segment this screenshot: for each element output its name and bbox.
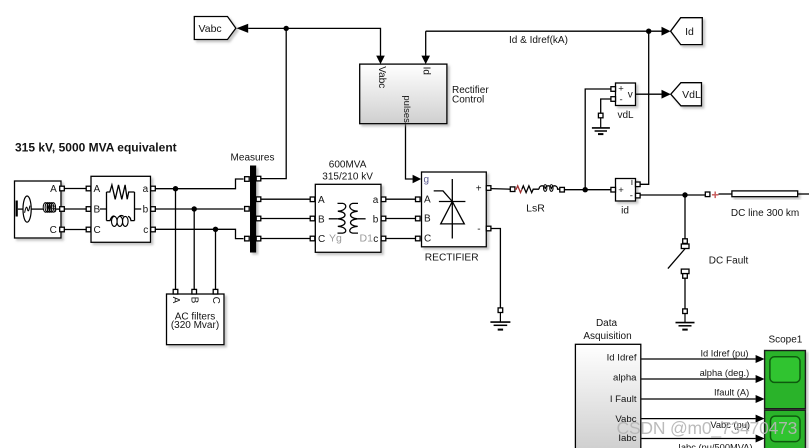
goto tag Vabc [194, 17, 236, 40]
node phase A junction [173, 186, 178, 191]
wire alpha to scope [642, 378, 756, 380]
svg-text:Control: Control [452, 95, 484, 106]
ground 2 [676, 314, 695, 330]
Id signal wire from control input down [425, 31, 427, 56]
Measures bus bar subsystem [231, 153, 275, 253]
svg-text:VdL: VdL [682, 89, 701, 101]
wire rectifier - to ground 3 [491, 229, 501, 308]
svg-text:A: A [94, 184, 101, 195]
svg-text:Id: Id [685, 26, 694, 38]
ground 3 [490, 313, 510, 330]
arrowhead into VdL tag [662, 90, 671, 99]
rectifier block [416, 172, 491, 264]
DC line 300 km block [719, 191, 809, 219]
Rectifier Control block [360, 64, 490, 124]
wire LsR to id meter [564, 189, 611, 191]
svg-text:+: + [476, 183, 482, 194]
wire Measures a to transformer A [261, 198, 310, 200]
red unconnected marker [712, 192, 719, 199]
svg-text:b: b [143, 205, 149, 216]
svg-text:pulses: pulses [401, 95, 412, 123]
wire Id Idref to scope [642, 358, 756, 360]
svg-text:Id Idref: Id Idref [607, 353, 637, 364]
wire junction B down to AC filters [193, 209, 195, 290]
node phase C junction [213, 227, 218, 232]
svg-text:Asquisition: Asquisition [583, 331, 631, 342]
thyristor symbol [434, 179, 466, 239]
wire Measures Vabc out up to top [261, 28, 286, 178]
svg-text:B: B [318, 214, 325, 225]
wire breaker to ground 2 [684, 278, 686, 309]
svg-text:I Fault: I Fault [610, 394, 637, 405]
RL equivalent impedance block [86, 176, 155, 242]
wire RL c to Measures (jog down) [155, 229, 243, 238]
wire up to vdL + [585, 89, 611, 190]
arrowhead into Vabc tag [237, 24, 249, 33]
svg-text:-: - [477, 224, 480, 235]
svg-text:RECTIFIER: RECTIFIER [425, 253, 479, 264]
svg-text:C: C [318, 234, 325, 245]
Scope1 [765, 334, 806, 448]
svg-text:A: A [170, 297, 181, 304]
wire vdL - to ground [601, 99, 611, 113]
node DC bus junction at vdL branch [583, 187, 588, 192]
svg-text:b: b [373, 214, 379, 225]
arrowhead into Id tag [662, 27, 671, 36]
wire junction C down to AC filters [215, 229, 217, 289]
ground 1 [592, 118, 610, 134]
wire transformer a to rectifier A [386, 198, 416, 200]
svg-text:alpha: alpha [613, 373, 637, 384]
svg-text:Yg: Yg [329, 233, 342, 245]
svg-text:g: g [424, 174, 430, 185]
svg-text:vdL: vdL [617, 110, 634, 121]
secondary winding [350, 203, 358, 233]
svg-text:Scope1: Scope1 [768, 334, 802, 345]
wire top Vabc to goto tag [248, 27, 286, 29]
svg-text:A: A [318, 195, 325, 206]
node DC fault junction [682, 192, 687, 197]
wire transformer b to rectifier B [386, 218, 416, 220]
arrowhead into g [413, 175, 422, 184]
current measurement id [611, 177, 640, 216]
svg-text:id: id [621, 205, 629, 216]
svg-text:c: c [143, 225, 148, 236]
wire top Vabc to Rectifier Control [286, 28, 380, 56]
wire source C to RL C [64, 229, 86, 231]
svg-text:i: i [631, 177, 633, 188]
three-phase source block [15, 181, 65, 238]
svg-text:c: c [373, 234, 378, 245]
transformer block 600MVA [310, 160, 386, 253]
svg-text:D1: D1 [360, 233, 374, 245]
goto tag Id [671, 18, 703, 45]
node phase B junction [192, 206, 197, 211]
svg-text:C: C [424, 234, 431, 245]
svg-text:315/210 kV: 315/210 kV [322, 171, 373, 182]
svg-text:LsR: LsR [526, 202, 545, 214]
wire source A to RL A [64, 188, 86, 190]
svg-text:Measures: Measures [231, 153, 275, 164]
svg-text:A: A [50, 184, 57, 195]
svg-text:A: A [424, 195, 431, 206]
primary winding [338, 203, 346, 233]
svg-text:C: C [94, 225, 101, 236]
svg-text:DC Fault: DC Fault [709, 255, 749, 266]
wire Iabc to scope [642, 438, 756, 440]
port square before ground 2 [683, 309, 688, 314]
wire id - to DC line [640, 194, 705, 196]
svg-text:B: B [94, 205, 101, 216]
svg-text:Id Idref (pu): Id Idref (pu) [700, 348, 748, 358]
svg-text:CSDN @m0_73470473: CSDN @m0_73470473 [617, 418, 798, 439]
svg-text:DC line 300 km: DC line 300 km [731, 208, 799, 219]
port square before ground 3 [498, 308, 503, 313]
wire junction down to DC fault breaker [684, 195, 686, 239]
svg-text:B: B [50, 205, 57, 216]
svg-text:+: + [618, 185, 624, 196]
wire junction A down to AC filters [175, 189, 177, 290]
svg-text:B: B [189, 297, 200, 304]
AC filters block [167, 289, 225, 344]
wire RL a to Measures (jog up) [155, 179, 243, 189]
svg-text:a: a [143, 184, 149, 195]
svg-text:Vabc: Vabc [199, 23, 222, 35]
svg-text:a: a [373, 195, 379, 206]
svg-text:B: B [424, 214, 431, 225]
svg-text:-: - [630, 191, 633, 202]
svg-text:Vabc: Vabc [376, 66, 387, 88]
wire Vabc to scope [642, 418, 756, 420]
node Id junction [646, 29, 651, 34]
Data Acquisition subsystem [575, 318, 640, 448]
Id horizontal wire [426, 30, 662, 32]
svg-text:315 kV, 5000 MVA equivalent: 315 kV, 5000 MVA equivalent [15, 141, 177, 155]
svg-text:Iabc (pu/500MVA): Iabc (pu/500MVA) [678, 442, 752, 448]
pulses wire to g input [406, 124, 414, 179]
wire rectifier + to LsR [491, 188, 510, 191]
wire I Fault to scope [642, 398, 756, 400]
series impedance LsR [510, 185, 564, 215]
svg-text:v: v [628, 90, 633, 101]
wire RL b to Measures [155, 208, 243, 210]
svg-text:-: - [620, 94, 623, 105]
svg-text:C: C [50, 225, 57, 236]
svg-text:600MVA: 600MVA [329, 160, 367, 171]
wire Id junction down to id meter [638, 31, 649, 184]
port square before ground 1 [598, 113, 603, 118]
wire Measures b to transformer B [261, 218, 310, 220]
svg-text:C: C [210, 297, 221, 304]
wire transformer c to rectifier C [386, 238, 416, 240]
wire source B to RL B [64, 208, 86, 210]
wire vdL v out to VdL tag [636, 93, 662, 95]
svg-text:(320 Mvar): (320 Mvar) [171, 320, 219, 331]
node Vabc junction [284, 26, 289, 31]
wire Measures c to transformer C [261, 238, 310, 240]
port square end of id wire [705, 192, 710, 197]
arrowhead into Id control input [421, 56, 430, 65]
svg-text:Data: Data [596, 318, 618, 329]
goto tag VdL [671, 83, 702, 106]
svg-text:alpha (deg.): alpha (deg.) [700, 368, 750, 378]
DC Fault breaker [668, 239, 749, 278]
svg-text:Ifault (A): Ifault (A) [714, 388, 749, 398]
svg-text:Id: Id [420, 67, 431, 75]
voltage measurement vdL [611, 83, 636, 121]
svg-text:+: + [618, 84, 624, 95]
svg-text:Id & Idref(kA): Id & Idref(kA) [509, 35, 568, 46]
arrowhead into Vabc control input [376, 56, 385, 65]
